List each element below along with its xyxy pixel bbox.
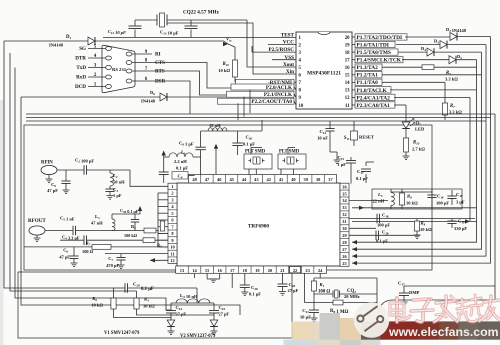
arrow pin 26 [352,254,357,258]
svg-text:C12 10 pF: C12 10 pF [108,29,126,35]
ground [401,301,408,303]
svg-text:27 pF: 27 pF [219,312,230,317]
capacitor C9c 0.1uF [159,171,169,173]
wire pin stub [158,206,168,208]
svg-text:10 kΩ: 10 kΩ [218,68,230,73]
svg-text:P1.2/TA1: P1.2/TA1 [357,73,379,79]
wire R11 to RST [234,77,236,82]
wire loop V7 pin25 [352,37,491,264]
wire loop V6 pin26 [352,45,486,257]
pin hole right 7 [126,69,132,73]
pin number 15 U1 [200,266,202,273]
wire varactor section frame [18,272,292,338]
svg-text:47 pF: 47 pF [59,255,70,260]
ground [311,317,318,319]
pin 4 DTR [88,57,106,59]
svg-text:RFIN: RFIN [41,161,53,166]
wire P1.7 net [405,36,450,38]
resistor R3 100ohm [144,228,156,233]
svg-text:100 pF: 100 pF [436,201,449,206]
pin number 35 U1 [340,189,349,191]
svg-text:www.elecfans.com: www.elecfans.com [388,325,499,339]
pin number 28 U1 [340,238,349,240]
varactor V1 [167,320,175,327]
svg-text:P1.3/TA2: P1.3/TA2 [357,65,379,71]
wire plt2 up [287,148,289,155]
varactor V2 [210,320,218,327]
pin number 7 U1 [168,222,177,224]
svg-text:3.3 kΩ: 3.3 kΩ [445,77,458,82]
svg-text:R10: R10 [223,62,230,67]
svg-text:L4 10 nH: L4 10 nH [180,293,198,299]
ground [330,151,337,153]
connector RFOUT [29,226,45,235]
wire RFIN to pin1 [130,170,168,186]
svg-text:10: 10 [299,104,304,109]
ground [63,189,70,191]
resistor R7 3.3k [444,82,446,103]
pin number 33 U1 [340,203,349,205]
inductor L3 2.2nH [164,156,169,158]
wire L4 rail [171,302,214,304]
svg-text:R5: R5 [446,71,451,76]
wire C29 to L4 [196,288,198,303]
capacitor C21 10uF [313,303,315,311]
pin 6 DSR [132,80,152,82]
pin VCC U2 [268,44,296,46]
svg-text:10 μF: 10 μF [300,315,311,320]
pin number 30 U1 [340,224,349,226]
svg-text:RTS: RTS [155,69,165,75]
resistor R5 [422,65,434,70]
pin VSS U2 [272,59,296,61]
wire bus 2 [26,117,491,119]
capacitor C12 10pF [134,20,136,26]
pin 5 SG [88,48,106,50]
svg-text:CTS: CTS [155,60,165,66]
resistor R11b 10k [416,219,418,222]
pin P2.5/ROSC U2 [252,51,296,53]
watermark char dian [395,298,399,322]
svg-text:LED: LED [415,127,425,132]
pin hole left 4 [106,56,112,60]
svg-text:470 pF: 470 pF [106,263,119,268]
arrow pin 27 [352,247,357,251]
resistor R2 100k [143,238,155,243]
svg-text:17: 17 [345,59,350,64]
watermark band [361,321,381,339]
pin number 10 U1 [168,242,177,244]
svg-text:Xout: Xout [283,62,294,68]
node C9 box [172,172,188,180]
svg-text:C13 10 pF: C13 10 pF [160,30,179,36]
svg-text:RESET: RESET [359,135,374,140]
wire pin32 net [349,218,475,220]
pin strip left U1 [168,183,177,263]
node supply arrow [214,144,218,149]
pin hole right 6 [126,79,132,83]
svg-text:P1.4/SMCLK/TCK: P1.4/SMCLK/TCK [357,58,402,64]
pin number 3 U1 [168,195,177,197]
wire P2.3 net LED [394,104,406,106]
svg-text:0.1 μF: 0.1 μF [176,165,188,170]
pin number 25 U1 [340,259,349,261]
pin number 45 U1 [224,175,226,184]
capacitor C13 10pF [190,20,192,26]
wire bus 1 [26,113,495,115]
wire P1.3 net [382,66,422,68]
pin strip bottom U1 [176,266,327,273]
pin hole left 3 [106,66,112,70]
wire pin30 net [349,227,376,229]
pin number 4 U1 [168,202,177,204]
resistor small pin7 [160,221,164,231]
capacitor C2 100pF [57,169,84,171]
wire pin stub [158,199,168,201]
arrow pin12 [150,258,155,262]
wire pin collector [157,193,159,247]
svg-text:22: 22 [293,268,297,273]
svg-text:P2.3/CA0/TA1: P2.3/CA0/TA1 [357,103,391,109]
pin P1.2/TA1 U2 [352,74,355,76]
pin number 46 U1 [212,175,214,184]
svg-text:P2.2/CAOUT/TA0: P2.2/CAOUT/TA0 [251,99,292,105]
diode D1 [88,37,95,45]
pin P1.4/SMCLK/TCK U2 [352,59,355,61]
svg-text:19: 19 [345,43,350,48]
svg-text:12: 12 [170,258,174,263]
wire pin31 out [352,220,477,222]
wire pin23 drop [304,273,306,303]
svg-text:13: 13 [345,89,350,94]
resistor R4 10k [134,298,139,309]
watermark char shao [457,299,467,314]
svg-text:22 nH: 22 nH [373,199,385,204]
ground [71,262,78,264]
resistor R6 10k [111,298,116,309]
svg-text:2.7 kΩ: 2.7 kΩ [412,147,425,152]
capacitor C27 27pF [282,273,284,284]
pin number 11 U1 [168,249,177,251]
capacitor C6 47pF [73,247,75,256]
pin 8 CTS [132,62,152,64]
node supply arrow B [162,151,166,156]
inductor L6 18nH [208,128,227,131]
svg-text:11: 11 [345,104,350,109]
pin number 20 U1 [263,266,265,273]
diode D6 [160,93,167,101]
svg-text:41: 41 [279,177,283,182]
pin number 5 U1 [168,209,177,211]
pin number 8 U1 [168,229,177,231]
ground [118,264,125,266]
svg-text:10 kΩ: 10 kΩ [420,227,432,232]
wire L1 rail [112,213,140,215]
pin number 23 U1 [300,266,302,273]
wire Vcc to R11 [234,47,236,60]
svg-text:100 Ω: 100 Ω [82,249,94,254]
watermark logo circle [354,302,390,338]
pin hole left 2 [106,75,112,79]
ground [211,330,218,332]
pin strip right U1 [340,183,349,266]
pin 3 TxD [88,67,106,69]
wire box top [391,191,432,193]
wire mid vertical a [237,103,239,120]
ground [107,195,114,197]
pin number 29 U1 [340,231,349,233]
resistor R9 100ohm [313,278,315,281]
ground [241,291,248,293]
ground [168,330,175,332]
wire pin11 [105,253,168,255]
pin hole right 9 [126,52,132,56]
capacitor C15 1uF [350,170,352,181]
pin P1.5/TA0/TMS U2 [352,51,355,53]
pin number 2 U1 [168,189,177,191]
capacitor C14 10nF [329,121,331,129]
wire crystal to Xin [167,23,296,74]
capacitor C5 1nF [45,230,73,232]
svg-text:31: 31 [342,219,346,224]
wire pin stub [158,192,168,194]
svg-text:PLT SMD: PLT SMD [279,149,300,154]
pin number 22 U1 [288,266,290,273]
svg-text:RS 232: RS 232 [112,67,127,72]
inductor L4 10nH [176,299,210,303]
node Vcc [223,42,228,46]
pin -RST/NMI U2 [236,79,295,85]
capacitor C25 3pF [451,190,453,196]
svg-text:TRF6900: TRF6900 [248,224,270,230]
capacitor C29 0.1uF [114,287,126,289]
wire P1.1 net [382,81,445,83]
svg-text:P1.0/TACLK: P1.0/TACLK [357,88,388,94]
wire pin stub [158,212,168,214]
svg-text:P2.1/INCLK: P2.1/INCLK [264,92,292,98]
svg-text:2.2 nH: 2.2 nH [174,159,187,164]
capacitor C30 0.1uF [134,214,136,220]
capacitor C13b 100pF [431,189,433,195]
pin number 12 U1 [168,256,177,258]
pin number 37 U1 [323,175,325,184]
led D7 [402,122,410,129]
svg-text:P2.5/ROSC: P2.5/ROSC [268,47,294,53]
wire crystal left [135,19,157,21]
svg-text:C2 100 pF: C2 100 pF [75,158,94,164]
svg-text:Xin: Xin [286,69,294,75]
pin P1.6/TA1/TDI U2 [352,44,355,46]
svg-text:0.1 μF: 0.1 μF [376,239,388,244]
ground [46,178,53,180]
capacitor C17 0.1uF [365,174,367,183]
pin P2.3/CA0/TA1 U2 [352,104,355,106]
wire P2.4 drop [469,97,471,221]
diode D2 [450,33,457,41]
wire P1.4 net [402,59,449,61]
wire R6 to V1 node [114,309,172,318]
svg-text:TxD: TxD [76,65,86,71]
pin number 42 U1 [262,175,264,184]
svg-text:1: 1 [171,184,173,189]
pin number 41 U1 [274,175,276,184]
svg-text:V2 SMV1237-079: V2 SMV1237-079 [180,334,216,339]
watermark char you [484,300,500,302]
svg-text:VCC: VCC [283,40,294,46]
svg-text:47 pF: 47 pF [47,188,58,193]
wire pin14 down [194,273,196,278]
wire pin stub [158,226,168,228]
wire pin stub [158,219,168,221]
svg-text:D2 IN4148: D2 IN4148 [446,27,467,33]
pin hole left 1 [106,85,112,89]
svg-text:C4 3.3 pF: C4 3.3 pF [62,235,80,241]
pin P2.0/ACLK U2 [231,84,294,90]
capacitor C28 0.1uF row [349,234,420,236]
svg-text:RI: RI [155,52,161,58]
pin 7 RTS [132,70,152,72]
wire RF section frame [24,125,432,270]
wire pin stub [158,246,168,248]
svg-text:18 nH: 18 nH [209,123,221,128]
wire left loop 3 [15,68,171,311]
pin number 34 U1 [340,196,349,198]
resistor R12 2.7k [403,138,408,152]
svg-text:DCD: DCD [75,84,86,90]
ground [34,237,41,239]
wire saw stubs [280,169,282,175]
svg-text:C30 0.1 μF: C30 0.1 μF [120,208,139,214]
svg-text:100 pF: 100 pF [377,223,390,228]
capacitor C23 27pF [213,303,215,311]
pin number 39 U1 [299,175,301,184]
capacitor C22 27pF [170,303,172,311]
crystal CQ2 20MHz [314,293,333,295]
diode D3 [440,41,447,49]
svg-text:16: 16 [345,66,350,71]
svg-text:15: 15 [345,74,350,79]
svg-text:27 pF: 27 pF [288,288,299,293]
svg-text:P1.5/TA0/TMS: P1.5/TA0/TMS [357,50,392,56]
resistor R8 1M [313,294,315,303]
svg-text:SG: SG [79,46,86,52]
connector RFIN [41,165,57,174]
node supply arrow rfout [138,206,142,211]
arrow pin 25 [352,261,357,265]
wire pin24 net [319,273,321,278]
pin number 19 U1 [250,266,252,273]
pin number 9 U1 [168,236,177,238]
capacitor C20 0.1uF [237,131,239,143]
ground [414,234,421,236]
svg-text:42: 42 [267,177,271,182]
svg-text:10 kΩ: 10 kΩ [143,304,155,309]
pin number 38 U1 [311,175,313,184]
svg-text:DSR: DSR [155,79,166,85]
svg-text:47 nH: 47 nH [91,221,103,226]
svg-text:330 pF: 330 pF [454,226,467,231]
pin number 40 U1 [286,175,288,184]
svg-text:0.1 μF: 0.1 μF [356,176,368,181]
inductor L1 47nH [112,219,115,231]
diode D5 [449,56,456,64]
svg-text:18: 18 [345,51,350,56]
pin P1.0/TACLK U2 [352,89,355,91]
svg-text:10 kΩ: 10 kΩ [406,201,418,206]
svg-text:12: 12 [345,96,350,101]
svg-text:27 pF: 27 pF [176,312,187,317]
wire crystal to Xout [247,20,296,67]
watermark char fa [436,301,456,303]
wire pin36 [350,181,352,184]
wire pin12 arrow [150,259,168,261]
wire CTS to P2.0 [152,63,231,89]
wire pins15 16 gnd [206,273,208,279]
svg-text:1 pF: 1 pF [113,193,122,198]
op-amp U2 MSP430F1121 IC body [296,32,352,109]
pin 9 RI [132,53,152,55]
watermark mosaic [292,322,312,340]
svg-text:PLT SMD: PLT SMD [245,149,266,154]
capacitor C26 0.1uF [244,273,246,285]
pin P2.4/CA1/TA2 U2 [352,96,355,98]
pin number 16 U1 [212,266,214,273]
diode D4 [427,48,434,56]
svg-text:1 μF: 1 μF [337,162,346,167]
svg-text:RFOUT: RFOUT [28,218,46,224]
capacitor C11 DMP [403,286,405,293]
svg-text:CQ22 4.57 MHz: CQ22 4.57 MHz [183,10,220,16]
resistor R6 10k [399,193,404,205]
svg-text:50 nH: 50 nH [113,180,125,185]
wire loop V5 pin27 [352,52,482,249]
pin number 6 U1 [168,216,177,218]
watermark char zi [413,299,431,300]
svg-text:32: 32 [342,212,346,217]
svg-text:IN4148: IN4148 [49,43,64,48]
svg-text:11: 11 [170,251,174,256]
pin strip top U1 [189,175,337,184]
svg-text:P1.6/TA1/TDI: P1.6/TA1/TDI [357,43,389,49]
wire P1.6 net [396,44,440,46]
wire left loop 2 [10,53,137,291]
pin P1.3/TA2 U2 [352,66,355,68]
pin number 44 U1 [237,175,239,184]
arrow pin 28 [352,240,357,244]
svg-text:0.1 μF: 0.1 μF [141,287,154,292]
wire P1.5 net [398,51,427,53]
wire plt1 up [250,148,252,155]
pin number 24 U1 [313,266,315,273]
capacitor C4 3.3pF [60,239,84,241]
pin P1.7/TA2/TDO/TDI U2 [352,36,355,38]
pin number 18 U1 [238,266,240,273]
svg-text:DTR: DTR [75,56,86,62]
wire RTS to P2.1 [152,71,227,95]
pin number 17 U1 [225,266,227,273]
wire mid vertical c [249,90,251,113]
resistor R11 10k [232,60,237,77]
capacitor C9b 47pF [65,170,67,181]
arrow pin 31 out [465,219,470,223]
wire loop V8 logo curve [379,114,495,309]
svg-text:2: 2 [171,191,173,196]
wire pin17 stub [231,273,233,288]
svg-text:14: 14 [345,81,350,86]
ground [210,278,217,280]
svg-text:R7: R7 [450,104,455,109]
svg-text:21: 21 [280,268,284,273]
